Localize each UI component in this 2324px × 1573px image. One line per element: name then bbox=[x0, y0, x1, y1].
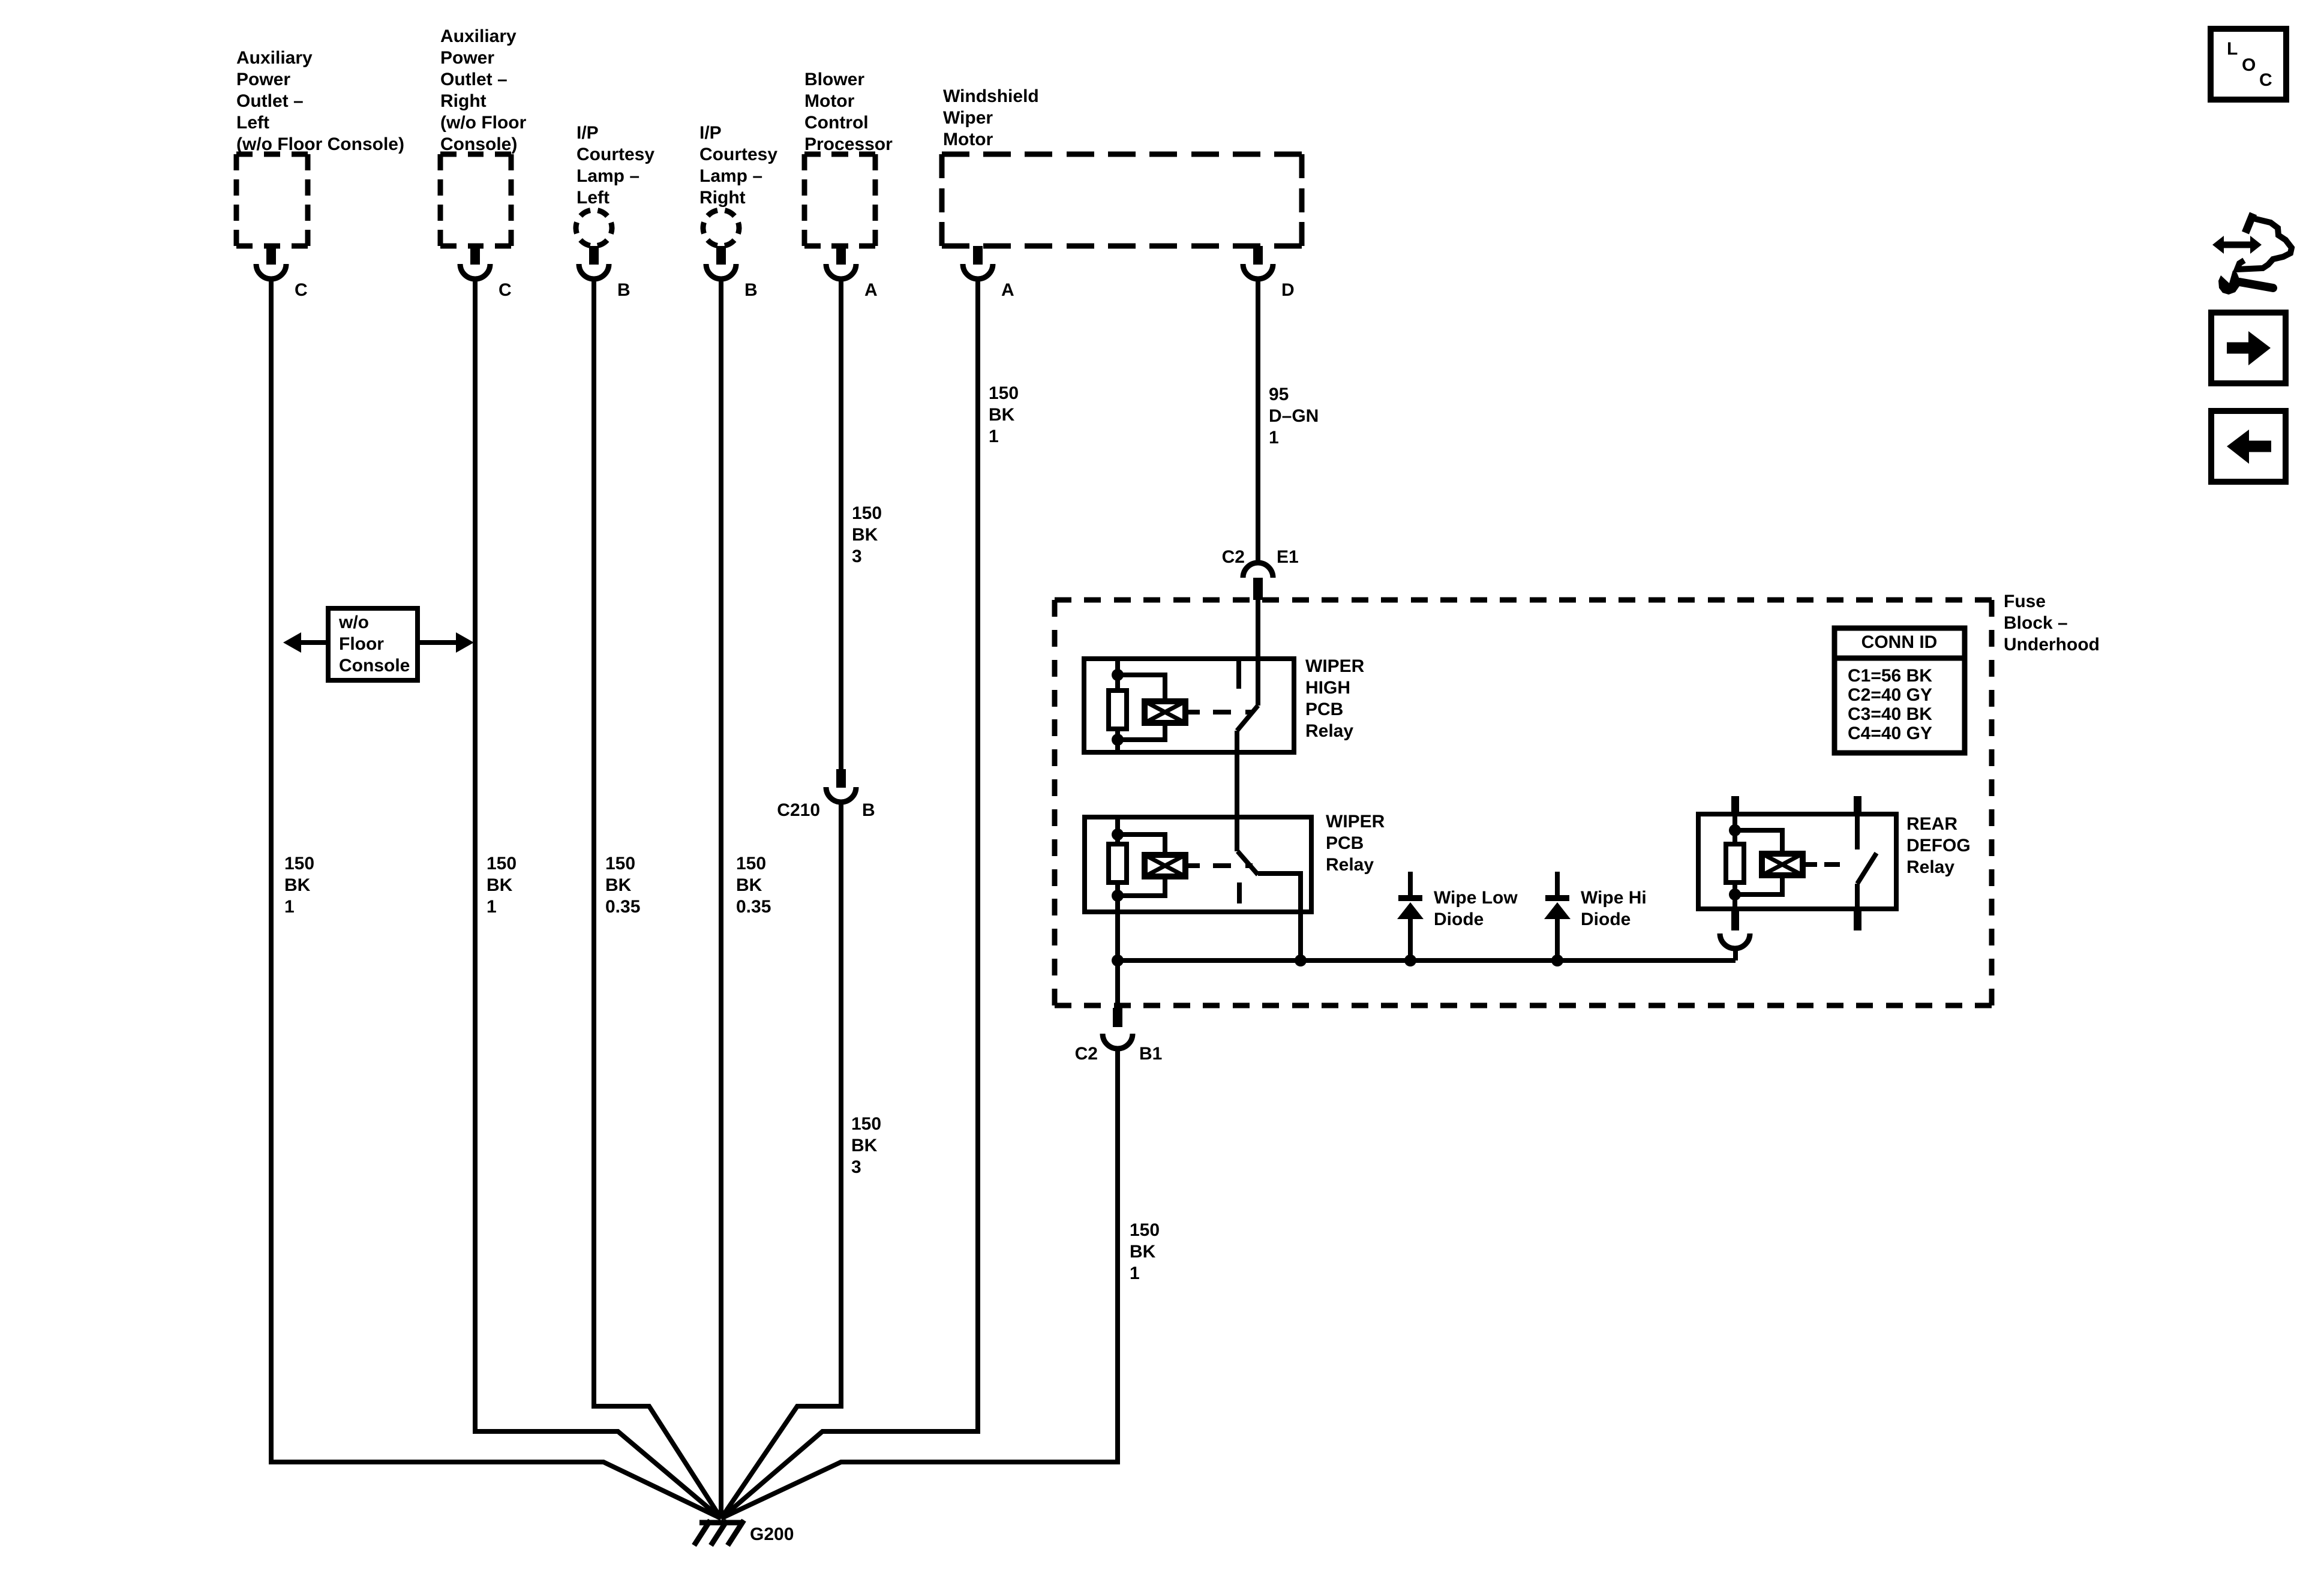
svg-text:C2: C2 bbox=[1075, 1044, 1098, 1064]
in-block connector under REAR DEFOG coil bbox=[1720, 933, 1750, 948]
bus wire to REAR DEFOG relay coil connector bbox=[1733, 951, 1738, 960]
CONN ID table box bbox=[1834, 628, 1965, 753]
svg-text:BK: BK bbox=[1130, 1242, 1156, 1262]
svg-text:Relay: Relay bbox=[1326, 855, 1374, 875]
svg-text:0.35: 0.35 bbox=[736, 897, 771, 917]
svg-text:BK: BK bbox=[852, 525, 878, 545]
connector D of Windshield Wiper Motor bbox=[1253, 246, 1263, 265]
svg-text:BK: BK bbox=[989, 405, 1015, 425]
svg-text:REAR: REAR bbox=[1906, 814, 1957, 834]
svg-text:150: 150 bbox=[1130, 1220, 1160, 1240]
svg-text:BK: BK bbox=[851, 1136, 878, 1155]
svg-text:A: A bbox=[1001, 280, 1014, 300]
wire from connector C2 B1 to ground run bbox=[721, 1050, 1118, 1518]
switch blade of WIPER PCB relay bbox=[1238, 851, 1258, 875]
resistor of REAR DEFOG relay coil bbox=[1726, 844, 1744, 882]
svg-text:D–GN: D–GN bbox=[1269, 406, 1319, 426]
connector C of Auxiliary Power Outlet - Right bbox=[470, 246, 480, 265]
svg-text:D: D bbox=[1281, 280, 1295, 300]
svg-text:A: A bbox=[864, 280, 878, 300]
icon hand with wrench (adjust) bbox=[2212, 214, 2292, 295]
component I/P Courtesy Lamp - Right dashed circle bbox=[703, 210, 739, 246]
wire diode stub bbox=[1555, 872, 1560, 897]
connector B of I/P Courtesy Lamp - Left bbox=[589, 246, 599, 265]
connector A of Blower Motor Control Processor bbox=[836, 246, 846, 265]
wire from Auxiliary Power Outlet Left pin C to ground run bbox=[271, 281, 721, 1518]
relay REAR DEFOG coil branch wire bbox=[1733, 814, 1737, 844]
svg-text:DEFOG: DEFOG bbox=[1906, 836, 1971, 855]
svg-text:Left: Left bbox=[236, 113, 269, 133]
svg-text:3: 3 bbox=[852, 547, 862, 566]
switch feed wire bbox=[1855, 814, 1860, 849]
svg-text:Wiper: Wiper bbox=[943, 108, 993, 128]
svg-text:WIPER: WIPER bbox=[1305, 656, 1365, 676]
svg-text:C: C bbox=[499, 280, 512, 300]
coil wire down to bus and connector bbox=[1115, 882, 1120, 1009]
svg-text:Motor: Motor bbox=[943, 130, 993, 149]
svg-text:1: 1 bbox=[284, 897, 295, 917]
coil loop wire bbox=[1118, 675, 1165, 701]
component Auxiliary Power Outlet - Left dashed box bbox=[236, 154, 308, 246]
svg-text:150: 150 bbox=[284, 854, 314, 873]
svg-text:C3=40 BK: C3=40 BK bbox=[1848, 704, 1932, 724]
svg-text:C1=56 BK: C1=56 BK bbox=[1848, 666, 1932, 686]
resistor of WIPER PCB relay coil bbox=[1109, 844, 1127, 882]
coil element (X box) of WIPER PCB relay bbox=[1145, 855, 1185, 876]
switch blade of WIPER HIGH relay bbox=[1237, 706, 1258, 731]
coil pin stub below box bbox=[1731, 909, 1739, 930]
svg-text:Wipe Hi: Wipe Hi bbox=[1581, 888, 1647, 908]
switch fixed contact stub bbox=[1237, 882, 1242, 903]
svg-text:150: 150 bbox=[605, 854, 635, 873]
svg-text:C2=40 GY: C2=40 GY bbox=[1848, 685, 1932, 705]
svg-text:C2: C2 bbox=[1222, 547, 1245, 567]
svg-text:B: B bbox=[744, 280, 758, 300]
svg-text:Blower: Blower bbox=[804, 70, 864, 89]
svg-text:Control: Control bbox=[804, 113, 869, 133]
svg-text:B1: B1 bbox=[1139, 1044, 1162, 1064]
svg-text:3: 3 bbox=[851, 1157, 861, 1177]
svg-text:Wipe Low: Wipe Low bbox=[1434, 888, 1518, 908]
wire pin D feed inside fuse block bbox=[1256, 600, 1260, 706]
svg-text:BK: BK bbox=[605, 875, 632, 895]
coil wire to box bottom bbox=[1115, 729, 1120, 752]
relay WIPER PCB Relay box bbox=[1085, 817, 1311, 912]
svg-text:150: 150 bbox=[736, 854, 766, 873]
junction dots bbox=[1112, 669, 1124, 681]
coil loop wire bbox=[1118, 834, 1165, 855]
coil actuating stub bbox=[1185, 710, 1200, 715]
svg-text:Auxiliary: Auxiliary bbox=[440, 26, 517, 46]
coil element (X box) of REAR DEFOG relay bbox=[1762, 854, 1803, 875]
resistor of WIPER HIGH relay coil bbox=[1109, 691, 1127, 729]
connector C2 cavity E1 into fuse block bbox=[1243, 563, 1273, 578]
svg-text:Right: Right bbox=[440, 91, 487, 111]
svg-text:WIPER: WIPER bbox=[1326, 812, 1385, 831]
svg-text:(w/o Floor: (w/o Floor bbox=[440, 113, 527, 133]
icon back arrow box bbox=[2211, 411, 2286, 482]
svg-text:Block –: Block – bbox=[2004, 613, 2068, 633]
connector A of Windshield Wiper Motor bbox=[973, 246, 983, 265]
svg-text:Outlet –: Outlet – bbox=[440, 70, 508, 89]
svg-text:95: 95 bbox=[1269, 385, 1289, 404]
svg-text:Motor: Motor bbox=[804, 91, 855, 111]
svg-text:PCB: PCB bbox=[1305, 700, 1343, 719]
wire from Blower Motor Control Processor pin A to connector C210 bbox=[839, 281, 843, 769]
svg-text:Courtesy: Courtesy bbox=[699, 145, 777, 164]
svg-text:Right: Right bbox=[699, 188, 746, 208]
svg-text:G200: G200 bbox=[750, 1524, 794, 1544]
arrow to right wire bbox=[418, 640, 457, 645]
coil element (X box) of WIPER HIGH relay bbox=[1145, 701, 1185, 723]
svg-text:C210: C210 bbox=[777, 800, 820, 820]
connector C of Auxiliary Power Outlet - Left bbox=[266, 246, 276, 265]
coil loop wire bbox=[1735, 830, 1782, 854]
svg-text:150: 150 bbox=[852, 503, 882, 523]
svg-text:PCB: PCB bbox=[1326, 833, 1364, 853]
coil actuating stub bbox=[1803, 862, 1817, 867]
svg-text:C4=40 GY: C4=40 GY bbox=[1848, 724, 1932, 743]
wire from Windshield Wiper Motor pin A to ground run bbox=[721, 281, 978, 1518]
relay WIPER HIGH coil branch wire bbox=[1115, 659, 1120, 691]
junction dots bbox=[1729, 824, 1741, 836]
svg-text:Lamp –: Lamp – bbox=[577, 166, 639, 186]
switch blade of REAR DEFOG relay bbox=[1857, 853, 1876, 884]
wire diode stub bbox=[1408, 872, 1413, 897]
icon LOC box bbox=[2211, 29, 2286, 100]
icon forward arrow box bbox=[2211, 313, 2286, 383]
component Auxiliary Power Outlet - Right dashed box bbox=[440, 154, 511, 246]
svg-text:BK: BK bbox=[284, 875, 311, 895]
svg-text:(w/o Floor Console): (w/o Floor Console) bbox=[236, 134, 404, 154]
mechanical link dashed bbox=[1213, 710, 1253, 715]
junction dots bbox=[1112, 828, 1124, 840]
svg-text:Diode: Diode bbox=[1434, 909, 1484, 929]
svg-text:E1: E1 bbox=[1277, 547, 1299, 567]
svg-text:Relay: Relay bbox=[1906, 857, 1954, 877]
ground G200 symbol bbox=[699, 1520, 744, 1526]
svg-text:HIGH: HIGH bbox=[1305, 678, 1350, 698]
svg-text:L: L bbox=[2227, 39, 2238, 59]
svg-text:CONN ID: CONN ID bbox=[1861, 632, 1938, 652]
wire from Auxiliary Power Outlet Right pin C to ground run bbox=[475, 281, 721, 1518]
component Windshield Wiper Motor dashed box bbox=[942, 154, 1302, 246]
svg-text:0.35: 0.35 bbox=[605, 897, 640, 917]
svg-text:B: B bbox=[862, 800, 875, 820]
wire from I/P Courtesy Lamp Left pin B to ground run bbox=[594, 281, 721, 1518]
component I/P Courtesy Lamp - Left dashed circle bbox=[576, 210, 612, 246]
svg-text:1: 1 bbox=[1130, 1263, 1140, 1283]
svg-text:C: C bbox=[295, 280, 308, 300]
switch fixed contact stub bbox=[1236, 659, 1241, 689]
svg-text:Lamp –: Lamp – bbox=[699, 166, 762, 186]
svg-text:Console: Console bbox=[339, 656, 410, 676]
wire from WIPER PCB relay switch to bus bbox=[1258, 873, 1301, 960]
svg-text:Processor: Processor bbox=[804, 134, 893, 154]
svg-text:1: 1 bbox=[1269, 428, 1279, 448]
wire from Windshield Wiper Motor pin D to connector C2 E1 bbox=[1256, 281, 1260, 564]
connector C2 cavity B1 below fuse block bbox=[1113, 1008, 1122, 1027]
relay REAR DEFOG Relay box bbox=[1698, 814, 1896, 909]
svg-text:O: O bbox=[2242, 55, 2256, 75]
svg-text:1: 1 bbox=[989, 427, 999, 446]
option callout w/o Floor Console box bbox=[328, 608, 418, 680]
svg-text:BK: BK bbox=[736, 875, 762, 895]
relay WIPER HIGH PCB Relay box bbox=[1084, 659, 1294, 752]
component Blower Motor Control Processor dashed box bbox=[804, 154, 875, 246]
svg-text:C: C bbox=[2259, 70, 2272, 90]
svg-text:1: 1 bbox=[487, 897, 497, 917]
svg-text:Left: Left bbox=[577, 188, 609, 208]
coil pin stub above box bbox=[1731, 796, 1739, 814]
svg-text:Auxiliary: Auxiliary bbox=[236, 48, 313, 68]
switch output wire bbox=[1855, 884, 1860, 909]
svg-text:Windshield: Windshield bbox=[943, 86, 1039, 106]
ground bus wire inside fuse block bbox=[1118, 958, 1736, 963]
svg-text:Floor: Floor bbox=[339, 634, 384, 654]
Fuse Block - Underhood dashed boundary bbox=[1055, 600, 1992, 1005]
svg-text:Power: Power bbox=[440, 48, 494, 68]
mechanical link dashed bbox=[1824, 862, 1851, 867]
connector B of I/P Courtesy Lamp - Right bbox=[716, 246, 726, 265]
svg-text:I/P: I/P bbox=[577, 123, 599, 143]
svg-text:Fuse: Fuse bbox=[2004, 592, 2046, 611]
svg-text:BK: BK bbox=[487, 875, 513, 895]
wire from I/P Courtesy Lamp Right pin B to ground bbox=[719, 281, 723, 1518]
svg-text:150: 150 bbox=[851, 1114, 881, 1134]
svg-text:I/P: I/P bbox=[699, 123, 722, 143]
coil actuating stub bbox=[1185, 863, 1200, 868]
svg-text:Diode: Diode bbox=[1581, 909, 1631, 929]
svg-text:Courtesy: Courtesy bbox=[577, 145, 654, 164]
svg-text:Console): Console) bbox=[440, 134, 517, 154]
coil wire to box bottom bbox=[1733, 882, 1737, 909]
svg-text:Underhood: Underhood bbox=[2004, 635, 2100, 655]
svg-text:Power: Power bbox=[236, 70, 290, 89]
svg-text:Outlet –: Outlet – bbox=[236, 91, 304, 111]
arrow to left wire bbox=[300, 640, 328, 645]
switch pin stub above box bbox=[1854, 796, 1861, 814]
svg-text:B: B bbox=[617, 280, 630, 300]
relay WIPER PCB coil branch wire bbox=[1115, 817, 1120, 844]
switch pin stub below box bbox=[1854, 909, 1861, 930]
svg-text:Relay: Relay bbox=[1305, 721, 1353, 741]
CONN ID header rule bbox=[1834, 656, 1965, 661]
wire from WIPER HIGH relay switch to WIPER PCB relay bbox=[1235, 731, 1239, 851]
svg-text:150: 150 bbox=[487, 854, 517, 873]
svg-text:w/o: w/o bbox=[338, 613, 369, 632]
wire from connector C210 to ground run bbox=[721, 804, 841, 1518]
svg-text:150: 150 bbox=[989, 383, 1019, 403]
mechanical link dashed bbox=[1213, 863, 1253, 868]
connector C210 pin B bbox=[836, 769, 846, 788]
